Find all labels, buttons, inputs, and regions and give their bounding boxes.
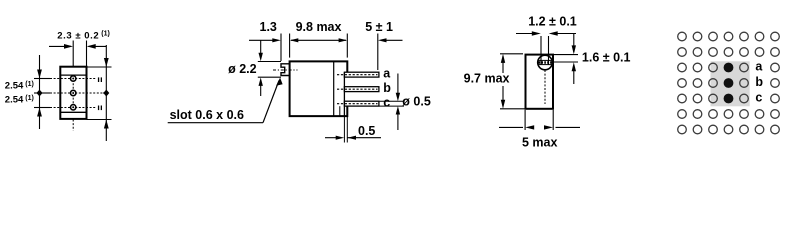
svg-text:a: a <box>383 67 391 81</box>
svg-text:1.3: 1.3 <box>260 20 277 34</box>
svg-text:ø 2.2: ø 2.2 <box>228 62 257 76</box>
svg-text:b: b <box>755 75 763 89</box>
svg-text:c: c <box>755 91 762 105</box>
svg-text:ø 0.5: ø 0.5 <box>402 95 431 109</box>
svg-text:9.8 max: 9.8 max <box>296 20 342 34</box>
svg-text:5 ± 1: 5 ± 1 <box>365 20 393 34</box>
svg-text:2.54: 2.54 <box>5 80 24 91</box>
svg-text:9.7 max: 9.7 max <box>464 72 510 86</box>
svg-text:1.2 ± 0.1: 1.2 ± 0.1 <box>528 15 577 29</box>
svg-text:(1): (1) <box>25 95 34 102</box>
svg-text:c: c <box>383 96 390 110</box>
svg-text:a: a <box>755 60 763 74</box>
svg-text:0.5: 0.5 <box>358 124 375 138</box>
svg-text:2.54: 2.54 <box>5 94 24 105</box>
svg-text:1.6 ± 0.1: 1.6 ± 0.1 <box>582 50 631 64</box>
svg-text:2.3 ± 0.2: 2.3 ± 0.2 <box>57 31 99 42</box>
svg-text:slot 0.6 x 0.6: slot 0.6 x 0.6 <box>170 108 244 122</box>
svg-text:5 max: 5 max <box>522 135 557 149</box>
svg-text:(1): (1) <box>25 81 34 88</box>
svg-text:b: b <box>383 81 391 95</box>
svg-text:(1): (1) <box>101 31 110 38</box>
